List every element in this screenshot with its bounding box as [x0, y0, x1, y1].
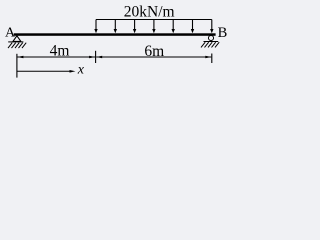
roller support at B — [204, 35, 219, 41]
dimension extension line at load start — [95, 51, 97, 63]
hatching under roller B — [201, 42, 219, 47]
distributed load arrows (7) — [94, 20, 213, 34]
svg-text:4m: 4m — [50, 42, 70, 59]
svg-text:6m: 6m — [144, 43, 164, 60]
load arrow 2 — [114, 20, 116, 30]
svg-text:20kN/m: 20kN/m — [124, 4, 175, 21]
load arrow 1 — [95, 20, 97, 30]
load arrow 3 — [134, 20, 136, 30]
load arrow 5 — [172, 20, 174, 30]
x axis arrow — [17, 70, 76, 73]
hatching under pin A — [8, 43, 26, 48]
pin support at A — [8, 36, 23, 42]
beam AB — [14, 33, 216, 36]
dimension line 4m — [17, 56, 95, 59]
dimension extension line at A — [16, 54, 18, 78]
svg-text:B: B — [218, 25, 228, 41]
load arrow 6 — [192, 20, 194, 30]
distributed load top line — [96, 19, 212, 21]
svg-text:A: A — [5, 25, 16, 40]
load arrow 4 — [153, 20, 155, 30]
load arrow 7 — [211, 20, 213, 30]
svg-text:x: x — [77, 63, 85, 78]
dimension line 6m — [96, 56, 211, 59]
dimension extension line at B — [211, 54, 213, 64]
